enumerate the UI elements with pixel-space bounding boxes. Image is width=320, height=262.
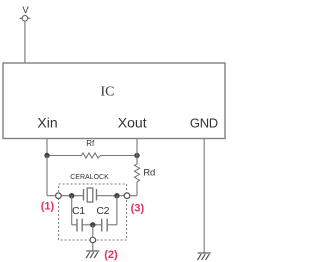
- terminal (1) circle: [56, 193, 62, 199]
- resonator X1 left plate: [83, 189, 85, 201]
- CERALOCK dashed box: [59, 184, 127, 240]
- resistor Rf: [82, 153, 101, 158]
- wire Rd down: [136, 182, 138, 196]
- wire C2 left lead: [93, 224, 102, 226]
- wire Xout to Rd: [136, 156, 138, 165]
- wire C2 up: [116, 196, 118, 225]
- junction Xout node: [134, 153, 139, 158]
- svg-text:(1): (1): [41, 201, 55, 213]
- capacitor C2 plates: [101, 219, 103, 232]
- junction Xin node: [44, 153, 49, 158]
- svg-text:Rf: Rf: [86, 139, 95, 148]
- resistor Rd: [135, 164, 140, 182]
- wire C1 left lead: [72, 224, 77, 226]
- wire to terminal 1: [47, 195, 55, 197]
- junction node 3 inner: [114, 193, 119, 198]
- wire resonator right: [97, 195, 125, 197]
- wire Rd to terminal 3: [130, 195, 137, 197]
- IC U1 box: [3, 63, 225, 139]
- svg-text:GND: GND: [190, 116, 218, 131]
- capacitor C1 plates: [76, 219, 78, 232]
- wire terminal 2 down: [92, 243, 94, 251]
- terminal V: [20, 15, 31, 21]
- ground GND: [198, 253, 211, 260]
- terminal (3) circle: [124, 193, 130, 199]
- svg-text:C2: C2: [96, 205, 109, 217]
- wire C2 right lead: [107, 224, 117, 226]
- resonator X1 right plate: [96, 189, 98, 201]
- wire V to IC: [24, 21, 26, 63]
- svg-text:(2): (2): [104, 249, 118, 261]
- junction center node: [90, 222, 95, 227]
- svg-text:Xout: Xout: [118, 115, 147, 131]
- terminal (2) circle: [90, 237, 96, 243]
- wire Rf right: [101, 155, 138, 157]
- resonator X1 body: [87, 188, 93, 202]
- svg-text:Xin: Xin: [37, 115, 57, 131]
- wire Xout pin down: [136, 139, 138, 156]
- wire Xin branch down: [46, 156, 48, 196]
- svg-text:(3): (3): [131, 203, 145, 215]
- wire Xin pin down: [46, 139, 48, 156]
- svg-text:V: V: [22, 5, 29, 16]
- wire GND pin down: [203, 139, 205, 253]
- wire resonator left: [62, 195, 84, 197]
- svg-text:IC: IC: [101, 85, 115, 100]
- wire C1 right lead: [82, 224, 93, 226]
- wire center down to terminal 2: [92, 225, 94, 237]
- ground node 2: [86, 251, 99, 258]
- svg-text:C1: C1: [72, 205, 85, 217]
- wire Rf left: [47, 155, 82, 157]
- junction node 1 inner: [69, 193, 74, 198]
- svg-text:CERALOCK: CERALOCK: [70, 174, 109, 181]
- wire C1 down: [71, 196, 73, 225]
- svg-text:Rd: Rd: [143, 167, 155, 178]
